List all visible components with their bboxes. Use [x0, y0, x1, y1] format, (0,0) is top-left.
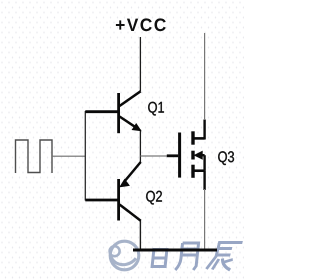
- wire: input to base rail: [52, 155, 85, 157]
- wire: VCC to Q1 collector: [139, 37, 141, 91]
- watermark char chen: [206, 243, 242, 271]
- ground rail: [133, 249, 217, 252]
- watermark char ri: [152, 250, 167, 267]
- wire: emitter node to Q3 gate: [140, 155, 167, 157]
- square-wave input source: [16, 140, 53, 173]
- node: Q1 emitter to Q2 emitter: [139, 130, 141, 163]
- wire: base rail: [84, 111, 86, 201]
- watermark char yue: [175, 243, 198, 270]
- background dot texture: [0, 0, 244, 279]
- transistor Q2 (PNP): [85, 162, 140, 221]
- label Q2: [146, 191, 162, 205]
- label Q1: [148, 102, 164, 116]
- wire: drain up: [204, 33, 206, 120]
- label +VCC: [116, 18, 166, 31]
- MOSFET Q3 (N-channel): [167, 120, 205, 191]
- watermark logo circle: [110, 241, 139, 270]
- label Q3: [218, 151, 234, 165]
- wire: Q2 collector to ground rail: [139, 220, 141, 250]
- transistor Q1 (NPN): [85, 91, 140, 133]
- wire: source down to rail: [204, 189, 206, 250]
